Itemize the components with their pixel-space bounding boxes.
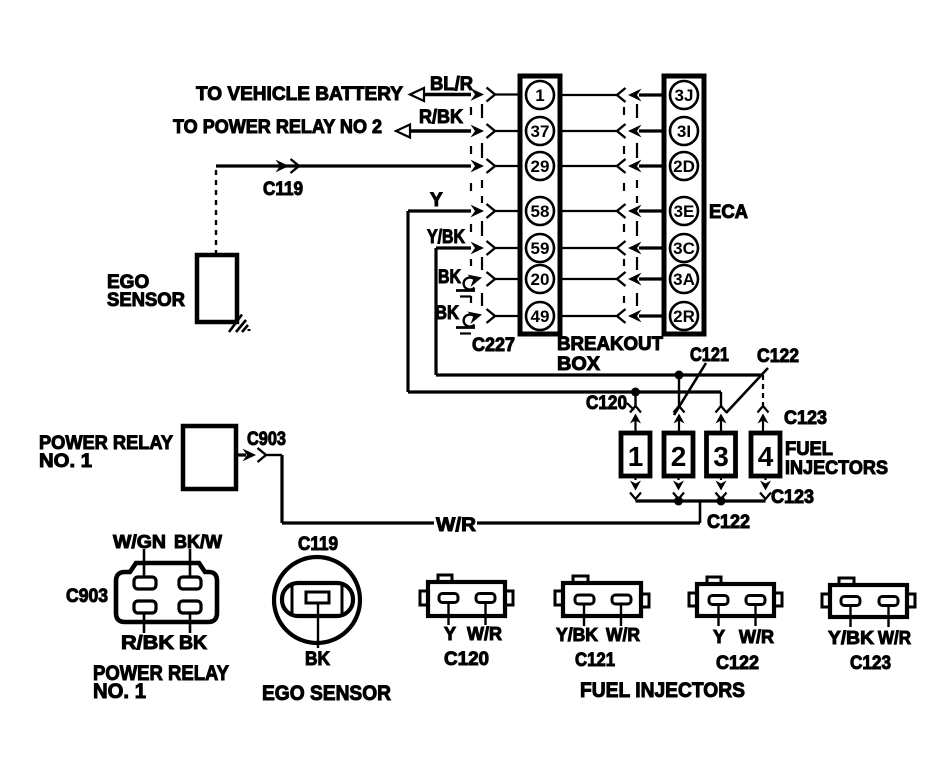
svg-text:49: 49 [531,307,550,326]
junction dot bus injector2 [674,497,683,506]
svg-text:R/BK: R/BK [419,107,463,128]
svg-text:C120: C120 [586,393,627,414]
connector arrow row4 [471,204,496,218]
svg-text:3C: 3C [673,239,695,258]
connector arrow C903 [243,448,267,462]
svg-text:Y: Y [713,627,725,647]
connector chevron row7 [487,309,496,323]
svg-text:FUEL: FUEL [785,439,833,460]
svg-text:C120: C120 [444,649,489,670]
svg-text:C122: C122 [707,512,750,533]
svg-text:C122: C122 [716,653,759,674]
svg-text:C123: C123 [771,487,814,508]
svg-text:EGO SENSOR: EGO SENSOR [262,682,391,705]
svg-text:Y/BK: Y/BK [828,628,874,648]
breakout pin numbers [531,86,550,326]
svg-text:BK/W: BK/W [174,532,222,552]
wire row3 C119 to breakout pin 29 [216,164,520,167]
svg-text:1: 1 [628,441,644,472]
svg-text:C119: C119 [263,179,303,200]
wire row7 BK ground to breakout pin 49 [495,315,520,317]
svg-text:BL/R: BL/R [430,74,473,95]
svg-text:C123: C123 [784,408,827,429]
breakout box [520,76,560,334]
svg-text:3: 3 [713,441,729,472]
svg-text:W/GN: W/GN [113,532,166,552]
wire row5 Y/BK to breakout pin 59 [436,246,520,249]
svg-text:C903: C903 [66,586,108,607]
C227 connector dashed boundary [471,104,482,306]
svg-text:C123: C123 [850,653,891,674]
ground splice symbol row7 [456,308,484,333]
svg-text:BK: BK [305,649,330,670]
svg-text:Y/BK: Y/BK [556,625,598,645]
svg-text:Y: Y [430,190,443,211]
connector C121 face [555,576,649,626]
ECA pin names [673,86,695,326]
injector bottom bus wire [636,499,766,502]
svg-text:20: 20 [531,270,550,289]
label POWER RELAY NO. 1 (left) [39,433,173,472]
svg-text:C121: C121 [575,650,615,671]
power relay box [183,426,236,489]
connector arrow row5 [471,241,496,255]
svg-text:37: 37 [531,122,550,141]
svg-text:2: 2 [671,441,687,472]
open diamond arrow row1 [410,88,424,101]
ECA connector arrows [617,88,642,323]
connector C903 face [116,549,217,633]
fuel injector 2 [664,433,693,476]
svg-text:INJECTORS: INJECTORS [785,458,888,479]
label C122 with leader line [726,346,799,413]
svg-text:Y: Y [444,624,456,644]
ECA pin circles [670,81,698,330]
ground splice symbol row6 [456,271,484,296]
svg-text:FUEL INJECTORS: FUEL INJECTORS [580,679,745,702]
svg-text:TO VEHICLE BATTERY: TO VEHICLE BATTERY [196,84,403,105]
fuel injector 1 [621,433,650,476]
wire row4 Y to breakout pin 58 [408,209,520,212]
connector C119 face [274,557,360,648]
svg-text:C122: C122 [757,346,799,367]
wire row1 BL/R to breakout pin 1 [424,93,520,97]
EGO sensor dashed lead [215,170,217,255]
label POWER RELAY NO. 1 (bottom) [93,662,229,703]
svg-text:BREAKOUT: BREAKOUT [557,334,663,355]
wire row2 R/BK to breakout pin 37 [410,129,520,133]
svg-text:3J: 3J [675,86,694,105]
connector arrow row3 at C227 [471,159,496,173]
svg-text:BOX: BOX [557,354,600,375]
svg-text:W/R: W/R [436,515,476,536]
svg-text:NO. 1: NO. 1 [39,451,92,472]
connector arrow C119 [276,159,300,173]
svg-text:SENSOR: SENSOR [107,290,185,311]
svg-text:2R: 2R [673,307,695,326]
svg-text:C227: C227 [472,335,515,356]
svg-text:W/R: W/R [467,624,502,644]
svg-text:BK: BK [179,633,207,654]
injector bottom connector arrows [630,476,771,499]
injector top connector arrows [630,406,769,424]
connector C123 face [822,578,915,627]
svg-text:TO POWER RELAY NO 2: TO POWER RELAY NO 2 [173,117,382,138]
svg-text:4: 4 [758,441,774,472]
svg-text:3E: 3E [674,202,695,221]
connector C120 face [420,575,513,625]
fuel injector 3 [707,433,736,476]
junction dot bus injector3 [717,497,726,506]
junction dot injector2 [675,371,684,380]
svg-text:C119: C119 [298,534,338,555]
wire bus Y/BK (line A) to injectors 2 and 4 [436,375,763,406]
wire Y vertical [406,211,409,392]
wire bus Y (line B) to injectors 1 and 3 [408,392,721,406]
ECA wires rows 1-7 [560,95,664,316]
svg-text:W/R: W/R [739,627,774,647]
label BREAKOUT BOX [557,334,663,375]
EGO sensor box [197,255,237,322]
C121 ECA connector dashed boundary [624,104,637,306]
svg-text:58: 58 [531,202,550,221]
svg-text:W/R: W/R [606,625,640,645]
label FUEL INJECTORS (right) [785,439,888,479]
injector top stubs [636,419,764,433]
fuel injector 4 [751,433,780,476]
svg-text:R/BK: R/BK [121,633,174,654]
svg-text:Y/BK: Y/BK [427,227,465,248]
svg-text:C121: C121 [690,345,729,366]
connector arrow row1 [471,88,496,102]
connector arrow row2 [471,124,496,138]
label C121 with leader line [674,345,729,415]
svg-text:3A: 3A [673,270,695,289]
wire Y/BK vertical [434,248,437,375]
power relay output wire [236,455,282,523]
svg-text:BK: BK [438,267,461,288]
svg-text:ECA: ECA [709,202,748,223]
wire W/R bus [282,521,700,524]
svg-text:3I: 3I [677,122,691,141]
svg-text:W/R: W/R [878,628,911,648]
svg-text:2D: 2D [673,157,695,176]
breakout pin circles [526,81,554,330]
label C120 with tick [586,393,634,414]
open diamond arrow row2 [396,125,410,138]
junction dot injector1 [631,388,640,397]
wire row6 BK ground to breakout pin 20 [495,278,520,280]
EGO sensor hatch [229,315,251,333]
svg-text:59: 59 [531,239,550,258]
svg-text:C903: C903 [247,429,286,450]
svg-text:29: 29 [531,157,550,176]
svg-text:NO. 1: NO. 1 [93,680,146,703]
connector C122 face [689,577,782,626]
ECA box [664,76,704,334]
connector chevron row6 [487,272,496,286]
label EGO SENSOR (left) [107,272,185,311]
svg-text:1: 1 [535,86,544,105]
wire bus drop to W/R [699,501,702,523]
svg-text:BK: BK [435,303,459,324]
